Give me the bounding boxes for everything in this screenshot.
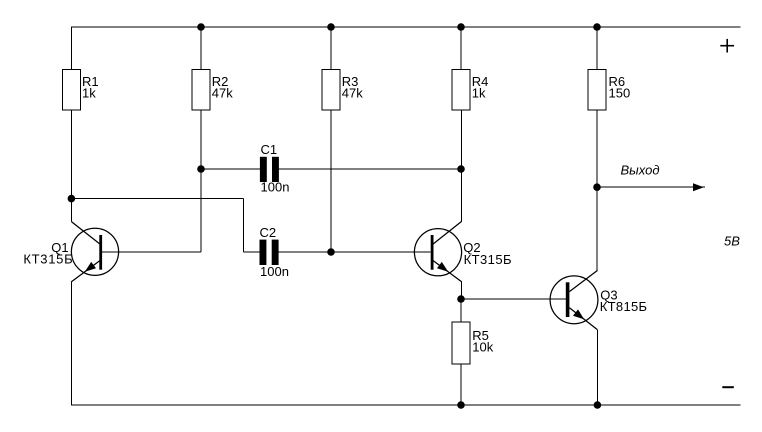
plus symbol bbox=[720, 39, 734, 53]
wire C1 right lead to R4 line bbox=[278, 168, 461, 170]
svg-text:C2: C2 bbox=[260, 225, 277, 240]
junction node top rail R2 bbox=[197, 23, 205, 31]
svg-text:10k: 10k bbox=[472, 340, 493, 355]
wire Q3 emitter vertical bbox=[596, 330, 598, 405]
capacitor C2 bbox=[260, 240, 279, 265]
wire R6 top lead bbox=[596, 27, 598, 69]
wire Q1 emitter vertical bbox=[70, 282, 72, 405]
svg-text:100n: 100n bbox=[261, 180, 290, 195]
transistor Q2 bbox=[414, 221, 461, 281]
transistor Q1 bbox=[71, 222, 118, 282]
wire R2 bottom lead down to Q1 base level bbox=[200, 110, 202, 252]
svg-text:Выход: Выход bbox=[621, 163, 660, 178]
svg-text:1k: 1k bbox=[82, 86, 96, 101]
wire top power rail bbox=[71, 26, 740, 28]
wire feedback horizontal from Q1 collector node bbox=[71, 198, 243, 200]
wire R3 top lead bbox=[330, 27, 332, 69]
resistor R3 bbox=[322, 69, 340, 110]
capacitor C1 bbox=[260, 157, 279, 182]
junction node Q3 emitter bottom rail bbox=[594, 401, 602, 409]
svg-text:КТ815Б: КТ815Б bbox=[600, 299, 648, 314]
resistor R4 bbox=[452, 69, 470, 110]
wire R2 top lead bbox=[200, 27, 202, 69]
resistor R1 bbox=[63, 69, 81, 110]
resistor R5 bbox=[452, 322, 470, 364]
junction node top rail R4 bbox=[457, 23, 465, 31]
junction node Q1 collector / feedback bbox=[68, 195, 76, 203]
wire C2 left lead bbox=[244, 251, 260, 253]
junction node top rail R6 bbox=[593, 23, 601, 31]
junction node Q2 emitter / R5 / Q3 base bbox=[457, 295, 465, 303]
wire Q1 base horizontal bbox=[102, 251, 201, 253]
wire output arrow line bbox=[597, 186, 705, 188]
junction node top rail R3 bbox=[327, 23, 335, 31]
junction node C2 / R3 bbox=[327, 248, 335, 256]
wire Q2 emitter vertical to node bbox=[461, 282, 463, 299]
wire R1 top lead bbox=[70, 27, 72, 69]
wire R6 bottom lead to output node bbox=[596, 110, 598, 187]
svg-text:100n: 100n bbox=[260, 264, 289, 279]
wire C1 left lead from R2 line bbox=[201, 168, 260, 170]
wire R5 bottom lead bbox=[460, 364, 462, 405]
svg-text:150: 150 bbox=[609, 86, 631, 101]
junction node output / R6 / Q3 collector bbox=[593, 183, 601, 191]
svg-text:C1: C1 bbox=[261, 142, 278, 157]
svg-text:47k: 47k bbox=[342, 86, 363, 101]
minus symbol bbox=[722, 386, 734, 388]
junction node C1 right / R4 bbox=[457, 165, 465, 173]
wire Q3 collector vertical bbox=[596, 187, 598, 270]
output arrowhead bbox=[693, 183, 704, 191]
wire Q3 base horizontal bbox=[461, 298, 566, 300]
wire R4 bottom lead / Q2 collector vertical bbox=[461, 110, 463, 221]
wire bottom power rail bbox=[71, 404, 740, 406]
wire R5 top lead bbox=[460, 299, 462, 322]
transistor Q3 bbox=[550, 270, 598, 329]
wire R3 bottom lead down to C2 wire bbox=[330, 110, 332, 252]
wire R4 top lead bbox=[460, 27, 462, 69]
svg-text:КТ315Б: КТ315Б bbox=[464, 252, 512, 267]
svg-text:47k: 47k bbox=[212, 86, 233, 101]
wire R1 bottom lead / Q1 collector vertical bbox=[70, 110, 72, 222]
svg-text:КТ315Б: КТ315Б bbox=[23, 251, 73, 266]
junction node R5 bottom rail bbox=[457, 401, 465, 409]
resistor R6 bbox=[588, 69, 606, 110]
wire C2 right lead to Q2 base bbox=[278, 251, 430, 253]
junction node C1 left / R2 bbox=[197, 165, 205, 173]
wire feedback vertical down to C2 bbox=[243, 199, 245, 252]
resistor R2 bbox=[192, 69, 210, 110]
svg-text:5В: 5В bbox=[724, 233, 740, 248]
svg-text:1k: 1k bbox=[472, 86, 486, 101]
